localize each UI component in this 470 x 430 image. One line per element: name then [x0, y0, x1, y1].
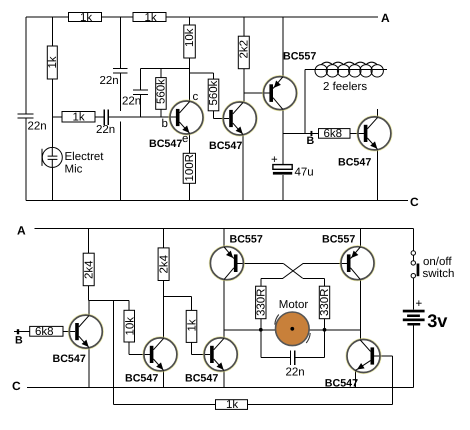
svg-text:BC557: BC557 [230, 234, 263, 246]
svg-text:10k: 10k [184, 28, 196, 47]
svg-text:2k4: 2k4 [84, 260, 96, 279]
svg-text:1k: 1k [73, 112, 85, 124]
svg-text:BC547: BC547 [338, 156, 371, 168]
svg-text:C: C [12, 379, 21, 393]
svg-text:+: + [271, 154, 278, 166]
svg-text:6k8: 6k8 [324, 128, 343, 140]
svg-text:560k: 560k [156, 79, 168, 104]
svg-text:47u: 47u [295, 167, 314, 179]
svg-text:b: b [162, 118, 168, 130]
svg-text:BC547: BC547 [125, 373, 158, 385]
svg-text:BC547: BC547 [209, 140, 242, 152]
svg-text:BC547: BC547 [185, 373, 218, 385]
svg-text:6k8: 6k8 [35, 326, 54, 338]
svg-text:22n: 22n [28, 121, 47, 133]
svg-text:A: A [17, 224, 26, 238]
svg-text:10k: 10k [125, 317, 137, 336]
svg-text:e: e [182, 133, 188, 145]
svg-text:3v: 3v [427, 311, 448, 331]
svg-text:1k: 1k [47, 56, 59, 68]
svg-text:c: c [193, 91, 199, 103]
svg-text:22n: 22n [122, 96, 141, 108]
svg-text:Electret: Electret [65, 151, 105, 163]
svg-text:BC547: BC547 [53, 353, 86, 365]
svg-text:22n: 22n [100, 75, 119, 87]
svg-text:22n: 22n [96, 124, 115, 136]
svg-text:B: B [307, 135, 315, 147]
svg-text:BC547: BC547 [325, 378, 358, 390]
svg-text:330R: 330R [256, 289, 268, 317]
svg-text:+: + [416, 298, 423, 310]
svg-text:2k2: 2k2 [239, 40, 251, 59]
svg-text:C: C [410, 195, 419, 209]
svg-text:1k: 1k [145, 12, 157, 24]
svg-text:2k4: 2k4 [159, 254, 171, 273]
svg-text:22n: 22n [286, 367, 305, 379]
svg-text:2 feelers: 2 feelers [323, 81, 367, 93]
svg-text:330R: 330R [319, 289, 331, 317]
svg-text:100R: 100R [184, 154, 196, 182]
svg-text:B: B [15, 335, 23, 347]
svg-text:A: A [381, 11, 390, 25]
svg-text:BC547: BC547 [149, 138, 182, 150]
svg-text:560k: 560k [208, 80, 220, 105]
svg-text:BC557: BC557 [322, 234, 355, 246]
svg-text:BC557: BC557 [283, 51, 316, 63]
svg-text:1k: 1k [80, 12, 92, 24]
svg-text:1k: 1k [226, 399, 238, 411]
svg-text:1k: 1k [187, 319, 199, 331]
svg-text:switch: switch [423, 268, 455, 280]
svg-text:on/off: on/off [423, 256, 452, 268]
svg-text:Motor: Motor [279, 299, 309, 311]
svg-text:Mic: Mic [65, 164, 83, 176]
